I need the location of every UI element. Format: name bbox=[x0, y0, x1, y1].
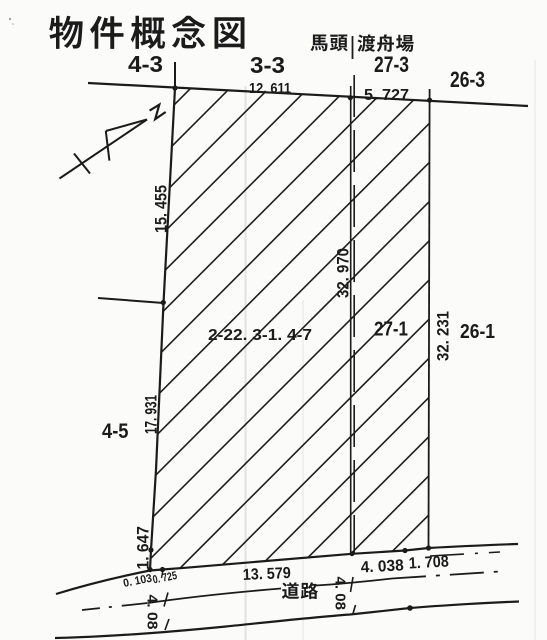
svg-text:12. 611: 12. 611 bbox=[249, 80, 291, 97]
road label 道路 bbox=[282, 582, 318, 599]
svg-text:2-22. 3-1. 4-7: 2-22. 3-1. 4-7 bbox=[208, 327, 312, 344]
north arrow shaft bbox=[60, 120, 148, 179]
boundary point on west edge bbox=[161, 300, 166, 305]
dimension tick near 0.725 bbox=[162, 570, 164, 578]
survey point on far road edge bbox=[407, 605, 413, 611]
north arrow head edge bbox=[106, 120, 147, 132]
boundary point southeast corner bbox=[426, 545, 431, 550]
svg-text:27-3: 27-3 bbox=[374, 52, 409, 77]
boundary point at 0.725 offset bbox=[160, 567, 165, 572]
svg-text:15. 455: 15. 455 bbox=[152, 185, 171, 233]
svg-text:4. 08: 4. 08 bbox=[144, 595, 160, 630]
svg-text:13. 579: 13. 579 bbox=[242, 565, 291, 584]
place name 渡舟場 bbox=[358, 34, 414, 52]
svg-text:4. 08: 4. 08 bbox=[332, 577, 348, 611]
top boundary line bbox=[88, 83, 528, 106]
paper speckles bbox=[9, 18, 11, 20]
stub above top-left corner bbox=[174, 62, 176, 88]
svg-text:26-3: 26-3 bbox=[450, 67, 485, 92]
svg-text:32. 231: 32. 231 bbox=[434, 311, 453, 361]
road edge curve A (parcel frontage) bbox=[56, 544, 518, 594]
svg-text:4. 038: 4. 038 bbox=[360, 557, 404, 576]
road edge curve B solid bbox=[148, 589, 281, 604]
west neighbor boundary line bbox=[98, 298, 164, 303]
north arrow tail tick bbox=[74, 154, 90, 174]
place name 馬頭 bbox=[310, 35, 347, 52]
separator bar between 馬頭 and 渡舟場 bbox=[352, 36, 354, 59]
svg-text:5. 727: 5. 727 bbox=[364, 87, 409, 104]
scan crease light vertical line x=535 bbox=[534, 60, 536, 640]
boundary point at lot 27-3 / 26-3 corner bbox=[427, 98, 432, 103]
svg-text:27-1: 27-1 bbox=[374, 319, 408, 341]
municipal boundary dashed line bbox=[353, 75, 355, 553]
parcel right edge bbox=[429, 89, 430, 548]
north arrow letter N (rotated, z-like) bbox=[150, 105, 166, 119]
svg-text:1. 708: 1. 708 bbox=[408, 553, 449, 572]
boundary point at municipal line on top boundary bbox=[348, 95, 353, 100]
scan crease light vertical line x=303 bbox=[302, 300, 304, 640]
boundary point at municipal line on frontage bbox=[350, 551, 355, 556]
parcel left edge bbox=[150, 88, 175, 570]
scan crease light vertical line x=245 bbox=[245, 86, 247, 640]
road width ticks center 4.08 bbox=[351, 577, 354, 592]
boundary point southwest corner bbox=[147, 567, 152, 572]
road edge curve B left dash-dot bbox=[82, 603, 148, 610]
boundary point at lot 4-3 / 3-3 corner bbox=[172, 85, 177, 90]
title 物件概念図 bbox=[49, 16, 244, 49]
svg-text:26-1: 26-1 bbox=[460, 321, 495, 343]
svg-text:32. 970: 32. 970 bbox=[334, 248, 353, 298]
svg-text:1. 647: 1. 647 bbox=[135, 526, 153, 570]
dash-dot line right of frontage bbox=[430, 552, 500, 556]
svg-text:0. 725: 0. 725 bbox=[152, 570, 179, 587]
boundary point at 4.038 end bbox=[402, 548, 407, 553]
road edge curve C bbox=[55, 602, 519, 639]
road edge curve B right dash-dot bbox=[392, 572, 500, 579]
boundary point above 1.647 segment bbox=[148, 547, 153, 552]
svg-text:4-5: 4-5 bbox=[102, 420, 129, 443]
svg-text:4-3: 4-3 bbox=[128, 51, 163, 77]
svg-text:3-3: 3-3 bbox=[250, 52, 285, 78]
north arrow head cross stroke bbox=[106, 131, 110, 161]
road width ticks left 4.08 bbox=[164, 593, 168, 607]
municipal boundary solid line bbox=[350, 86, 352, 554]
svg-text:17. 931: 17. 931 bbox=[143, 395, 161, 434]
